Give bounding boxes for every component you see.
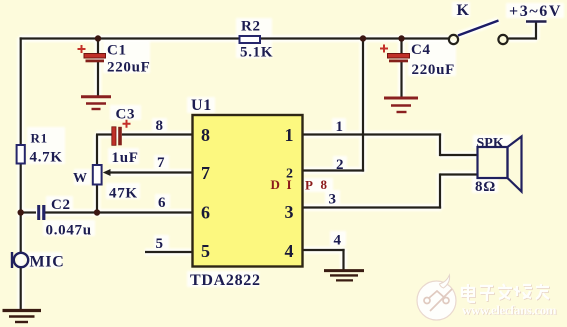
svg-text:6: 6	[201, 203, 210, 223]
svg-text:MIC: MIC	[30, 254, 65, 271]
svg-text:5: 5	[156, 236, 164, 252]
svg-text:4: 4	[334, 233, 342, 249]
svg-text:5: 5	[201, 241, 210, 261]
svg-text:www.elecfans.com: www.elecfans.com	[462, 303, 557, 318]
svg-text:R2: R2	[241, 19, 261, 35]
svg-text:220uF: 220uF	[412, 62, 456, 78]
svg-text:R1: R1	[31, 131, 48, 146]
svg-text:C4: C4	[411, 42, 431, 58]
svg-text:W: W	[73, 171, 88, 186]
svg-text:220uF: 220uF	[107, 60, 151, 76]
svg-text:7: 7	[157, 155, 165, 171]
svg-text:1: 1	[336, 119, 344, 135]
svg-text:2: 2	[336, 157, 344, 173]
svg-text:C1: C1	[107, 43, 127, 59]
svg-text:1uF: 1uF	[112, 150, 139, 166]
svg-text:8Ω: 8Ω	[475, 179, 496, 195]
svg-text:47K: 47K	[109, 186, 138, 202]
svg-text:8: 8	[321, 177, 328, 192]
svg-text:1: 1	[285, 125, 294, 145]
svg-text:4.7K: 4.7K	[30, 150, 63, 166]
svg-text:0.047u: 0.047u	[46, 223, 92, 239]
svg-text:8: 8	[201, 125, 210, 145]
svg-text:SPK: SPK	[477, 136, 504, 151]
svg-text:6: 6	[158, 195, 166, 211]
svg-text:U1: U1	[191, 97, 212, 114]
svg-text:3: 3	[285, 202, 294, 222]
svg-text:D: D	[271, 177, 280, 192]
svg-text:8: 8	[156, 118, 164, 134]
svg-text:I: I	[287, 177, 292, 192]
svg-text:P: P	[305, 178, 313, 193]
svg-text:C2: C2	[51, 197, 71, 213]
svg-text:7: 7	[201, 163, 210, 183]
svg-text:+3~6V: +3~6V	[509, 3, 562, 20]
svg-text:K: K	[457, 2, 470, 19]
svg-text:3: 3	[329, 192, 337, 208]
svg-text:C3: C3	[116, 107, 136, 123]
svg-text:4: 4	[285, 241, 294, 261]
svg-text:5.1K: 5.1K	[240, 45, 273, 61]
svg-text:TDA2822: TDA2822	[190, 272, 261, 289]
